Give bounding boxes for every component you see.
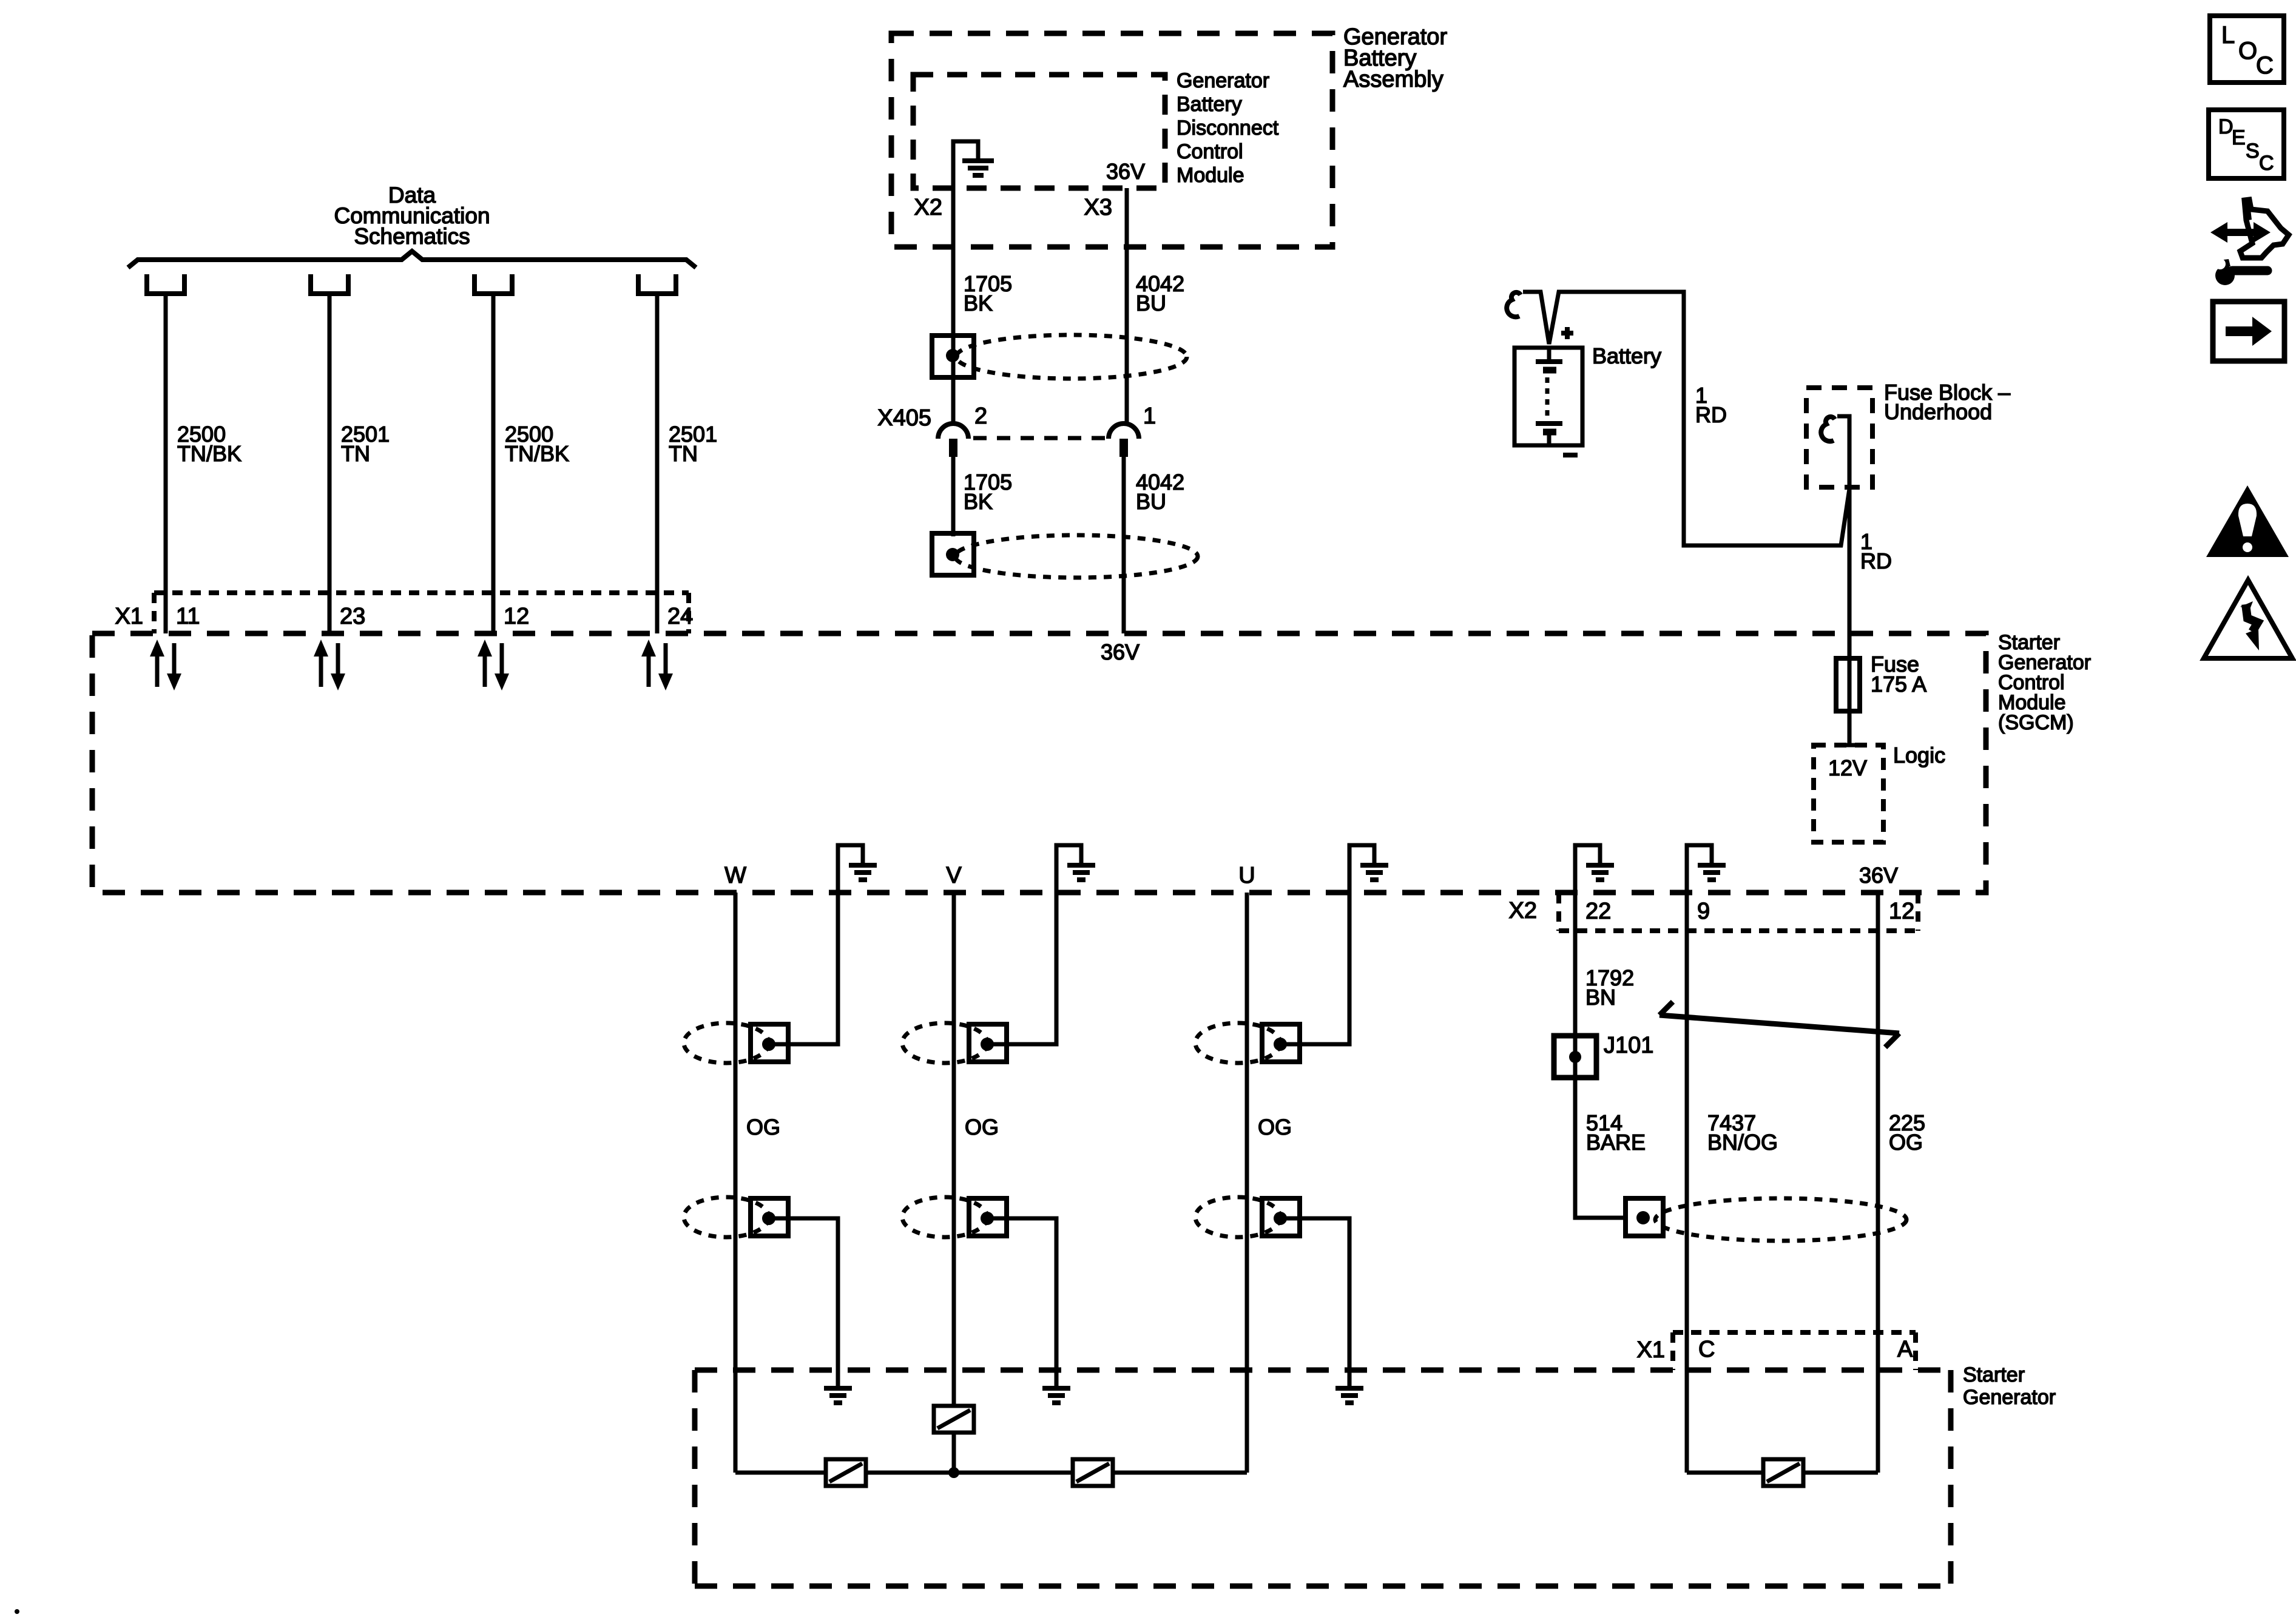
svg-text:36V: 36V <box>1859 863 1898 888</box>
fuse 175 A <box>1836 658 1860 711</box>
svg-text:1: 1 <box>1143 403 1156 429</box>
wire 2500 TN/BK <box>164 294 168 633</box>
svg-text:D: D <box>2218 115 2234 138</box>
svg-text:23: 23 <box>340 604 365 629</box>
label wire 1 RD (fuse block to SGCM) <box>1860 529 1892 573</box>
splice/shield box U row2 <box>1262 1198 1300 1236</box>
svg-text:X405: X405 <box>877 405 931 431</box>
svg-text:12: 12 <box>1889 899 1914 924</box>
svg-text:X2: X2 <box>1509 898 1537 923</box>
splice/shield box V row1 <box>969 1024 1007 1062</box>
svg-text:TN: TN <box>669 441 698 466</box>
twisted shield ellipse V row2 <box>902 1197 987 1237</box>
svg-text:BARE: BARE <box>1586 1130 1646 1155</box>
page artifact dot <box>15 1609 19 1614</box>
label wire 1705 BK upper <box>964 271 1012 316</box>
label Starter Generator Control Module (SGCM) <box>1998 631 2091 734</box>
svg-text:Battery: Battery <box>1592 343 1661 368</box>
svg-text:BU: BU <box>1136 489 1166 514</box>
svg-text:Disconnect: Disconnect <box>1177 116 1279 140</box>
battery internal plates <box>1536 348 1562 445</box>
label Generator Battery Assembly <box>1343 24 1447 92</box>
connector X1 (starter generator) dashed box <box>1673 1332 1916 1370</box>
connector X405 dashed link <box>973 436 1106 441</box>
wire 1705 BK upper (X2) <box>951 141 956 425</box>
connector X1 (SGCM, left) dashed box <box>154 593 689 633</box>
junction node (V to bus) <box>948 1467 959 1478</box>
icon arrow box <box>2213 302 2284 361</box>
wire phase U <box>1245 893 1249 1473</box>
off-page connector (fuse block feed) <box>1821 417 1835 441</box>
ground (U shield row2) <box>1335 1388 1363 1403</box>
svg-text:175 A: 175 A <box>1871 672 1926 697</box>
svg-text:Schematics: Schematics <box>354 224 470 249</box>
svg-text:Module: Module <box>1177 164 1244 187</box>
wire phase V upper <box>952 893 956 1406</box>
svg-text:OG: OG <box>965 1115 999 1139</box>
svg-text:U: U <box>1238 863 1255 888</box>
bidirectional data arrows at pin 11 <box>150 640 181 690</box>
svg-text:W: W <box>724 863 746 888</box>
label Starter Generator <box>1963 1363 2056 1409</box>
wire 1705 BK lower <box>951 457 956 536</box>
svg-text:TN: TN <box>341 441 370 466</box>
twisted shield ellipse U row2 <box>1195 1197 1280 1237</box>
svg-text:RD: RD <box>1860 549 1892 573</box>
wire phase W <box>734 893 738 1473</box>
connector X2 (SGCM bottom) dashed box <box>1559 893 1918 931</box>
ground (V shield row1) <box>1067 865 1095 880</box>
off-page connector (battery ground strap) <box>1507 292 1521 317</box>
svg-text:BN/OG: BN/OG <box>1707 1130 1778 1155</box>
svg-text:E: E <box>2232 126 2246 149</box>
connector terminal 4 (data link) <box>636 274 678 294</box>
svg-text:OG: OG <box>1889 1130 1923 1155</box>
wire U shield row1 to ground <box>1281 845 1374 1044</box>
ground (W shield row2) <box>824 1388 852 1403</box>
label wire 2501 TN <box>341 422 390 466</box>
ground (V shield row2) <box>1042 1388 1070 1403</box>
svg-text:(SGCM): (SGCM) <box>1998 711 2074 734</box>
ground (W shield row1) <box>849 865 877 880</box>
svg-text:X3: X3 <box>1084 195 1112 220</box>
svg-text:C: C <box>1698 1337 1715 1362</box>
svg-text:Generator: Generator <box>1177 69 1269 92</box>
twisted pair ellipse lower <box>955 535 1198 578</box>
svg-text:Battery: Battery <box>1177 93 1242 116</box>
connector terminal 2 (data link) <box>308 274 351 294</box>
wire 4042 BU upper (X3) <box>1125 188 1129 425</box>
connector X405 pin 2 socket <box>938 424 968 457</box>
fuse block underhood dashed box <box>1806 388 1872 487</box>
label wire 4042 BU upper <box>1136 271 1184 316</box>
wire phase V lower <box>952 1433 956 1473</box>
icon LOC box <box>2210 16 2284 83</box>
svg-text:12: 12 <box>504 604 529 629</box>
module Starter Generator Control Module (SGCM) dashed box <box>92 633 1986 893</box>
label wire 4042 BU lower <box>1136 470 1184 514</box>
splice/shield box upper (on 1705 BK) <box>932 336 974 377</box>
wire inside fuse block <box>1837 416 1849 658</box>
svg-text:24: 24 <box>667 604 693 629</box>
wire X2 to internal ground <box>953 141 978 158</box>
twisted shield ellipse V row1 <box>902 1023 987 1063</box>
svg-text:S: S <box>2246 140 2260 163</box>
label wire 1 RD (battery to fuse block) <box>1695 383 1727 427</box>
label battery minus <box>1563 453 1578 457</box>
svg-text:Starter: Starter <box>1963 1363 2025 1386</box>
fuse 175A internal wire <box>1848 658 1852 711</box>
svg-text:Control: Control <box>1177 140 1243 163</box>
splice/shield box V row2 <box>969 1198 1007 1236</box>
label wire 2500 TN/BK <box>505 422 569 466</box>
wire pin9 ground jog <box>1687 845 1712 893</box>
wire V shield row2 to ground <box>988 1218 1056 1386</box>
label wire 1792 BN <box>1585 965 1634 1010</box>
module Generator Battery Assembly dashed box <box>891 33 1332 247</box>
label battery plus <box>1561 327 1573 339</box>
splice/shield box lower (1705 BK termination) <box>932 533 974 575</box>
svg-text:BK: BK <box>964 291 993 316</box>
svg-text:BK: BK <box>964 489 993 514</box>
wire 2501 TN <box>328 294 332 633</box>
wire 7437 BN/OG <box>1685 893 1689 1473</box>
icon DESC box <box>2209 110 2284 178</box>
label wire 2501 TN <box>669 422 717 466</box>
thermal protector (V) <box>934 1406 974 1433</box>
wire pin22 ground jog <box>1575 845 1600 893</box>
wire W shield row2 to ground <box>770 1218 838 1386</box>
logic 12V dashed box <box>1814 745 1883 842</box>
svg-text:L: L <box>2221 22 2235 49</box>
svg-text:OG: OG <box>1258 1115 1292 1139</box>
bidirectional data arrows at pin 24 <box>641 640 673 690</box>
wire W shield row1 to ground <box>770 845 863 1044</box>
connector terminal 1 (data link) <box>144 274 187 294</box>
twisted-with arrow annotation <box>1660 1002 1899 1047</box>
battery B1 box <box>1514 348 1582 445</box>
brace for data communication schematics <box>128 251 696 268</box>
twisted shield ellipse (514 BARE) <box>1655 1198 1906 1241</box>
twisted pair ellipse upper <box>956 335 1187 379</box>
svg-text:12V: 12V <box>1828 755 1867 780</box>
svg-text:X2: X2 <box>914 195 942 220</box>
wire U shield row2 to ground <box>1281 1218 1349 1386</box>
icon warning triangle (caution) <box>2206 485 2289 557</box>
label Data Communication Schematics <box>334 183 490 249</box>
stator bus wire <box>735 1471 1247 1475</box>
icon warning triangle (electrical shock) <box>2204 580 2292 658</box>
svg-text:C: C <box>2256 52 2274 79</box>
wire temperature sensor loop C-A <box>1687 1471 1878 1475</box>
label Generator Battery Disconnect Control Module <box>1177 69 1279 187</box>
wire 1792 BN <box>1573 893 1578 1036</box>
svg-text:BU: BU <box>1136 291 1166 316</box>
twisted shield ellipse W row1 <box>684 1023 769 1063</box>
bidirectional data arrows at pin 23 <box>314 640 345 690</box>
module Generator Battery Disconnect Control Module dashed box <box>913 75 1165 188</box>
label wire 7437 BN/OG <box>1707 1110 1778 1155</box>
connector X405 pin 1 socket <box>1109 424 1139 457</box>
svg-text:X1: X1 <box>115 604 143 629</box>
icon double arrow with panel and wrench <box>2210 198 2289 285</box>
label Fuse Block - Underhood <box>1884 380 2010 424</box>
label wire 2500 TN/BK <box>177 422 241 466</box>
svg-text:TN/BK: TN/BK <box>505 441 569 466</box>
connector terminal 3 (data link) <box>472 274 515 294</box>
svg-text:Generator: Generator <box>1963 1386 2056 1409</box>
svg-text:2: 2 <box>974 403 987 429</box>
ground (inside disconnect module) <box>962 161 994 175</box>
svg-text:Logic: Logic <box>1893 743 1945 768</box>
thermal protector (C-A sensor) <box>1763 1459 1803 1486</box>
junction J101 box <box>1554 1036 1596 1078</box>
svg-text:TN/BK: TN/BK <box>177 441 241 466</box>
wire 2501 TN <box>655 294 660 633</box>
wire battery positive feed <box>1523 292 1849 545</box>
svg-text:OG: OG <box>746 1115 780 1139</box>
module Starter Generator dashed box <box>695 1370 1951 1586</box>
svg-text:36V: 36V <box>1101 640 1140 664</box>
thermal protector (W-V) <box>826 1459 866 1486</box>
thermal protector (V-U) <box>1073 1459 1113 1486</box>
splice/shield box U row1 <box>1262 1024 1300 1062</box>
label Fuse 175 A <box>1871 652 1926 697</box>
svg-text:36V: 36V <box>1106 159 1145 184</box>
svg-text:RD: RD <box>1695 402 1727 427</box>
twisted shield ellipse U row1 <box>1195 1023 1280 1063</box>
svg-text:X1: X1 <box>1637 1337 1665 1363</box>
splice/shield box W row2 <box>751 1198 788 1236</box>
svg-text:11: 11 <box>176 604 200 629</box>
wire V shield row1 to ground <box>988 845 1081 1044</box>
svg-text:22: 22 <box>1585 899 1611 924</box>
ground (wire 22) <box>1586 865 1614 880</box>
svg-text:BN: BN <box>1585 985 1616 1010</box>
wire 225 OG <box>1876 893 1880 1473</box>
svg-text:J101: J101 <box>1604 1033 1653 1058</box>
label wire 514 BARE <box>1586 1110 1646 1155</box>
svg-text:A: A <box>1897 1337 1913 1362</box>
wire 514 BARE <box>1575 1078 1626 1218</box>
splice/shield box W row1 <box>751 1024 788 1062</box>
svg-text:O: O <box>2238 38 2257 64</box>
wire 4042 BU lower <box>1122 457 1126 633</box>
svg-text:C: C <box>2259 152 2274 175</box>
wire fuse to logic <box>1840 711 1859 745</box>
bidirectional data arrows at pin 12 <box>478 640 509 690</box>
svg-text:9: 9 <box>1697 899 1710 924</box>
svg-text:Assembly: Assembly <box>1343 67 1443 92</box>
label wire 225 OG <box>1889 1110 1925 1155</box>
label wire 1705 BK lower <box>964 470 1012 514</box>
ground (wire 9) <box>1698 865 1726 880</box>
ground (U shield row1) <box>1360 865 1388 880</box>
wire 2500 TN/BK <box>491 294 496 633</box>
splice/shield box (514 BARE termination) <box>1626 1198 1663 1236</box>
twisted shield ellipse W row2 <box>684 1197 769 1237</box>
svg-text:Underhood: Underhood <box>1884 399 1992 424</box>
svg-text:V: V <box>946 863 962 888</box>
